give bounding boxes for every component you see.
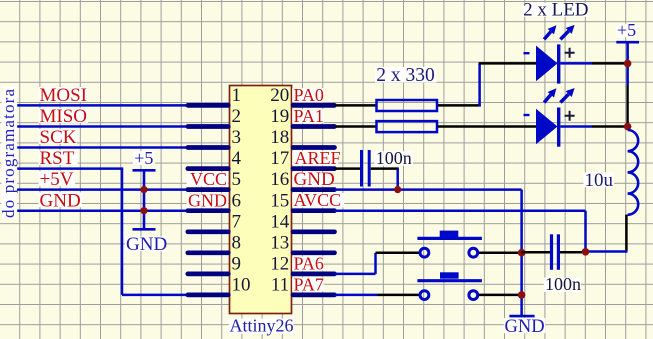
- pin number 3: [232, 127, 242, 148]
- pin stub 13: [293, 250, 335, 255]
- label GND left: [39, 190, 82, 211]
- junction dot C1/GND: [394, 186, 401, 193]
- svg-text:+5V: +5V: [40, 169, 74, 190]
- svg-text:3: 3: [232, 127, 242, 148]
- label MOSI: [39, 85, 88, 106]
- label VCC pin5: [187, 169, 229, 189]
- pin stub 6: [188, 208, 229, 213]
- svg-text:do programatora: do programatora: [0, 89, 18, 218]
- svg-text:9: 9: [232, 253, 242, 274]
- svg-text:2 x 330: 2 x 330: [376, 65, 435, 86]
- pin stub 18: [293, 145, 335, 150]
- LED D2: [524, 88, 575, 147]
- svg-text:PA7: PA7: [294, 274, 324, 294]
- svg-text:PA6: PA6: [294, 253, 324, 273]
- wire RST vertical to pin 10: [121, 168, 124, 295]
- label PA0: [292, 85, 324, 105]
- wire C2 to AVCC junction: [560, 251, 586, 254]
- pin number 17: [270, 148, 289, 169]
- svg-text:15: 15: [270, 190, 289, 211]
- svg-text:AVCC: AVCC: [294, 190, 342, 210]
- label PA6: [292, 253, 324, 273]
- wire PA1 to R2: [335, 125, 377, 128]
- label SCK: [39, 127, 77, 148]
- pin stub 8: [188, 250, 229, 255]
- label GND pin16: [292, 169, 334, 190]
- wire PA7 row: [335, 294, 378, 297]
- svg-text:12: 12: [270, 253, 289, 274]
- label 10u: [584, 170, 615, 191]
- svg-text:SCK: SCK: [40, 127, 77, 148]
- pin number 1: [232, 85, 242, 106]
- wire RST row: [17, 167, 123, 170]
- svg-text:100n: 100n: [545, 274, 581, 294]
- svg-text:10: 10: [232, 275, 251, 296]
- wire rail to LED2 row: [626, 86, 628, 127]
- svg-text:17: 17: [270, 148, 289, 169]
- label AREF: [292, 148, 340, 168]
- pin number 14: [270, 211, 290, 232]
- resistor R1 330: [377, 100, 438, 111]
- wire R2 to LED2: [438, 125, 537, 128]
- svg-text:1: 1: [232, 85, 242, 106]
- pin stub 2: [188, 124, 229, 129]
- wire S1 to GND rail: [479, 251, 522, 254]
- wire LED1 to +5 rail (blue part): [560, 62, 592, 65]
- push button S2: [417, 272, 482, 299]
- wire GND row: [17, 209, 228, 212]
- label GND pin6: [187, 190, 229, 210]
- svg-text:+5: +5: [617, 20, 636, 40]
- svg-text:4: 4: [232, 148, 242, 169]
- label +5V: [39, 169, 75, 190]
- IC name Attiny26: [229, 316, 294, 336]
- wire inductor to cap junction: [625, 215, 628, 252]
- label 100n (C2): [544, 274, 581, 294]
- wire +5V row: [17, 188, 228, 191]
- svg-text:MOSI: MOSI: [40, 85, 88, 106]
- pin number 4: [232, 148, 242, 169]
- wire cap junction to inductor (blue): [586, 250, 628, 253]
- svg-text:GND: GND: [126, 234, 167, 255]
- svg-text:RST: RST: [40, 148, 75, 169]
- pin number 19: [270, 106, 289, 127]
- svg-text:7: 7: [232, 211, 242, 232]
- wire into LED1: [479, 62, 537, 65]
- pin number 16: [270, 169, 289, 190]
- svg-text:19: 19: [270, 106, 289, 127]
- svg-text:PA1: PA1: [294, 106, 324, 126]
- label 2 x 330: [375, 65, 437, 86]
- wire AVCC drop to cap junction: [584, 211, 587, 252]
- wire rail to C2: [522, 251, 550, 254]
- junction dot S2/GND rail: [518, 291, 526, 299]
- wire LED1 to +5 rail (black part): [592, 62, 628, 65]
- wire PA6 row: [335, 273, 376, 276]
- push button S1: [417, 231, 482, 258]
- wire SCK row: [17, 146, 228, 149]
- pin stub 10: [188, 293, 229, 298]
- svg-text:11: 11: [271, 275, 289, 296]
- svg-text:2 x LED: 2 x LED: [523, 0, 588, 21]
- pin stub 14: [293, 229, 335, 234]
- pin number 7: [232, 211, 242, 232]
- svg-text:GND: GND: [294, 169, 335, 190]
- pin stub 11: [293, 293, 335, 298]
- pin number 9: [232, 253, 242, 274]
- power +5 symbol left: [133, 148, 156, 229]
- svg-text:PA0: PA0: [294, 85, 324, 105]
- wire PA0 to R1: [335, 104, 377, 107]
- label 2 x LED: [522, 0, 590, 21]
- wire MOSI row: [17, 104, 228, 107]
- pin stub 7: [188, 229, 229, 234]
- label MISO: [39, 106, 88, 127]
- junction dot LED2 rail: [624, 123, 632, 131]
- svg-text:+5: +5: [134, 148, 153, 168]
- pin number 12: [270, 253, 289, 274]
- ground symbol right: [504, 316, 546, 337]
- wire GND pin16 row: [335, 188, 522, 191]
- pin stub 1: [188, 103, 229, 108]
- label PA7: [292, 274, 324, 294]
- svg-text:GND: GND: [505, 317, 545, 337]
- wire C1 to GND net: [371, 167, 399, 170]
- pin number 10: [232, 275, 251, 296]
- wire LED1 branch vertical: [478, 63, 481, 106]
- wire MISO row: [17, 125, 228, 128]
- pin stub 15: [293, 208, 335, 213]
- resistor R2 330: [377, 121, 438, 132]
- wire LED2 to rail (blue part): [560, 125, 592, 128]
- ground symbol left: [125, 229, 167, 255]
- svg-text:13: 13: [270, 232, 289, 253]
- pin number 2: [232, 106, 242, 127]
- junction dot LED1 rail: [624, 60, 632, 68]
- label PA1: [292, 106, 324, 126]
- pin stub 12: [293, 272, 335, 277]
- pin number 18: [270, 127, 289, 148]
- wire PA6 jog vertical: [374, 253, 377, 274]
- svg-text:16: 16: [270, 169, 289, 190]
- svg-text:GND: GND: [188, 190, 227, 210]
- wire to button S2: [378, 294, 419, 297]
- svg-text:VCC: VCC: [190, 169, 227, 189]
- pin stub 17: [293, 166, 335, 171]
- svg-text:6: 6: [232, 190, 242, 211]
- capacitor C2 100n: [552, 234, 559, 269]
- svg-text:AREF: AREF: [295, 148, 341, 168]
- svg-text:14: 14: [270, 211, 290, 232]
- junction dot C2/AVCC: [582, 248, 590, 256]
- junction dot GND row: [140, 207, 147, 214]
- IC U1 Attiny26 body: [230, 86, 292, 314]
- wire C1 drop vertical: [396, 169, 399, 190]
- wire pin10 row: [122, 294, 228, 297]
- svg-text:8: 8: [232, 232, 242, 253]
- junction dot +5V row: [140, 186, 147, 193]
- wire AVCC row: [335, 209, 586, 212]
- pin stub 9: [188, 272, 229, 277]
- pin number 13: [270, 232, 289, 253]
- svg-text:Attiny26: Attiny26: [230, 316, 294, 336]
- svg-text:10u: 10u: [585, 170, 614, 191]
- pin number 6: [232, 190, 242, 211]
- power +5 symbol right: [616, 20, 639, 86]
- svg-text:2: 2: [232, 106, 242, 127]
- wire GND rail down right: [520, 190, 523, 317]
- pin stub 3: [188, 145, 229, 150]
- wire to button S1: [376, 252, 419, 255]
- pin number 15: [270, 190, 289, 211]
- label 100n (C1): [375, 148, 414, 168]
- pin number 20: [270, 85, 289, 106]
- svg-text:20: 20: [270, 85, 289, 106]
- pin number 5: [232, 169, 242, 190]
- wire R1 to LED1 branch: [438, 104, 481, 107]
- wire LED2 to rail (black part): [592, 125, 628, 128]
- junction dot S1/GND rail: [518, 249, 526, 257]
- svg-text:100n: 100n: [376, 148, 412, 168]
- label AVCC: [292, 190, 344, 210]
- pin stub 19: [293, 124, 335, 129]
- wire AREF to C1: [335, 167, 361, 170]
- svg-text:5: 5: [232, 169, 242, 190]
- inductor L1 10u: [628, 130, 639, 215]
- LED D1: [524, 25, 575, 84]
- capacitor C1 100n: [362, 150, 370, 187]
- pin number 11: [271, 275, 289, 296]
- wire S2 to GND rail: [479, 294, 522, 297]
- svg-text:GND: GND: [40, 190, 81, 211]
- pin stub 20: [293, 103, 335, 108]
- svg-text:MISO: MISO: [40, 106, 88, 127]
- label RST: [39, 148, 78, 169]
- pin stub 5: [188, 187, 229, 192]
- pin stub 4: [188, 166, 229, 171]
- pin number 8: [232, 232, 242, 253]
- node label "do programatora": [0, 87, 18, 219]
- pin stub 16: [293, 187, 335, 192]
- svg-text:18: 18: [270, 127, 289, 148]
